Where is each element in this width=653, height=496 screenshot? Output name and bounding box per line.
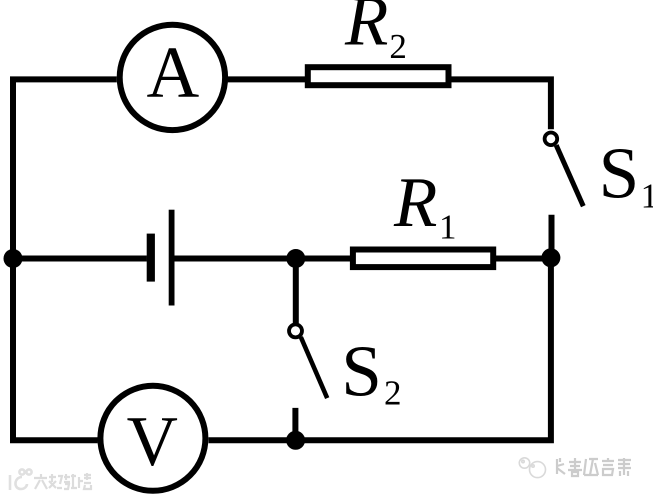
wire: left loop (top-left corner, left vertical, bottom-left corner) [13, 79, 117, 440]
svg-text:2: 2 [389, 27, 407, 66]
wire: right vertical from middle node to bottom-right corner [209, 259, 551, 441]
resistor R1 [353, 250, 493, 268]
svg-text:A: A [147, 32, 200, 113]
watermark right icon [519, 458, 545, 478]
voltmeter V1 [100, 386, 205, 491]
svg-text:2: 2 [384, 374, 402, 413]
node C (right middle junction) [541, 248, 560, 267]
svg-text:R: R [393, 164, 437, 242]
battery B1 negative plate [147, 234, 155, 282]
wire: middle right (battery to right node, through R1) [174, 256, 551, 262]
wire: S2 lower stub [292, 408, 298, 440]
watermark left text (大数跨境) [34, 473, 91, 489]
switch S2 pivot [289, 324, 302, 337]
wire: R2 to top-right corner down to switch S1 [450, 76, 551, 129]
svg-text:S: S [341, 330, 382, 411]
resistor R2 [308, 67, 449, 85]
svg-text:1: 1 [439, 207, 457, 246]
node D (S2 bottom junction) [286, 431, 305, 450]
wire: middle left (node A to battery) [13, 256, 147, 262]
svg-text:S: S [599, 132, 640, 213]
wire: S2 upper stub [293, 259, 299, 324]
switch S2 blade [301, 337, 327, 398]
wire: ammeter to R2 [228, 76, 306, 82]
node B (S2 top junction) [286, 249, 305, 268]
switch S1 blade [556, 145, 583, 206]
switch S1 pivot [545, 133, 558, 146]
wire: S1 lower stub to middle node [549, 215, 555, 259]
node A (left middle junction) [4, 249, 23, 268]
svg-text:V: V [127, 403, 178, 481]
ammeter A1 [120, 25, 225, 130]
watermark right text (长春教育帮) [557, 458, 631, 476]
svg-text:R: R [344, 0, 388, 60]
svg-text:1: 1 [641, 176, 653, 215]
battery B1 positive plate [169, 210, 175, 306]
watermark left icon [10, 469, 32, 490]
